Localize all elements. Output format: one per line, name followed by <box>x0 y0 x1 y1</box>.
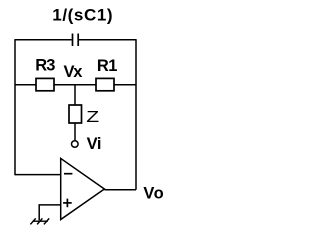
svg-text:R3: R3 <box>35 57 55 75</box>
resistor R3 <box>35 57 55 91</box>
wire top right segment <box>79 39 136 41</box>
op-amp U1 <box>61 158 105 219</box>
svg-text:Vx: Vx <box>64 63 84 81</box>
svg-text:Vi: Vi <box>87 135 102 153</box>
svg-text:R1: R1 <box>97 57 117 75</box>
wire right vertical <box>135 39 137 190</box>
svg-text:1/(sC1): 1/(sC1) <box>52 5 113 24</box>
svg-text:Vo: Vo <box>143 184 164 202</box>
wire output <box>104 189 136 191</box>
wire non-inverting input <box>39 205 61 220</box>
terminal Vi (open circle) <box>72 135 102 153</box>
wire node Vx down to Z <box>74 85 76 106</box>
resistor R1 <box>96 57 117 91</box>
op-amp minus pin mark <box>64 173 72 175</box>
capacitor C1 <box>73 34 79 47</box>
wire Z to input terminal <box>74 123 76 141</box>
wire left vertical <box>14 39 16 175</box>
wire middle horizontal <box>15 84 136 86</box>
wire inverting input <box>15 174 61 176</box>
wire top left segment <box>15 39 72 41</box>
op-amp plus pin mark <box>63 199 72 208</box>
svg-text:Z: Z <box>86 107 99 125</box>
impedance Z <box>69 105 99 125</box>
ground <box>30 218 49 224</box>
